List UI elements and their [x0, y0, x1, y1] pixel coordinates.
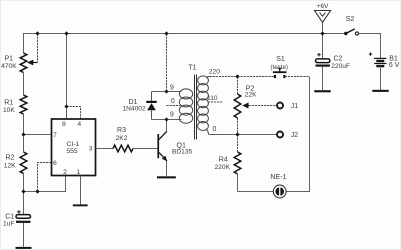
wire pin4 branch: [67, 107, 81, 120]
wire R1 to R2: [23, 114, 25, 152]
wire pin2 to C1: [24, 176, 66, 192]
node R1-R2-pin7: [21, 132, 25, 136]
svg-text:(teste): (teste): [270, 64, 288, 71]
svg-text:S2: S2: [346, 16, 355, 23]
potentiometer P2: [234, 77, 257, 135]
svg-text:C1: C1: [5, 213, 14, 220]
svg-text:110: 110: [207, 95, 218, 102]
svg-text:J2: J2: [291, 132, 299, 139]
ground C2: [314, 90, 330, 92]
node rail-T1: [164, 31, 168, 35]
node C1-pin2: [21, 189, 25, 193]
svg-text:1: 1: [77, 169, 81, 176]
resistor R1: [3, 95, 27, 114]
resistor R2: [4, 152, 27, 174]
svg-text:CI-1: CI-1: [66, 141, 79, 148]
switch S1 teste: [270, 56, 288, 78]
wire pin3: [96, 148, 114, 150]
svg-text:R1: R1: [4, 99, 13, 106]
wire primary 9 bottom: [152, 119, 182, 121]
node rail-C2: [320, 31, 324, 35]
wire emitter to ground: [166, 161, 168, 176]
svg-text:S1: S1: [276, 56, 285, 63]
wire secondary 110 stub: [208, 101, 222, 103]
wire pin6: [38, 163, 52, 192]
wire 0 tap to J2: [209, 134, 277, 136]
power +6V: [315, 3, 331, 33]
resistor R4: [215, 135, 241, 192]
capacitor C1: [3, 210, 31, 227]
wire P2 wiper to J1: [249, 105, 278, 107]
wire pin1 to ground: [80, 176, 82, 205]
svg-text:555: 555: [66, 148, 78, 155]
svg-text:T1: T1: [188, 64, 196, 71]
lamp NE-1: [270, 174, 286, 198]
svg-text:4: 4: [77, 121, 81, 128]
transistor Q1 BD135: [157, 131, 192, 161]
wire R3 to base: [133, 148, 157, 150]
potentiometer P1: [1, 53, 37, 73]
node rail-P1: [35, 31, 39, 35]
switch S2: [344, 16, 359, 35]
node 9bot-Q1: [164, 117, 168, 121]
wire right branch down: [286, 77, 309, 192]
svg-text:6: 6: [53, 160, 57, 167]
wire P1 wiper riser: [37, 34, 39, 63]
wire S1 to right branch: [285, 76, 310, 78]
ground B1: [372, 90, 388, 92]
node pin6-C1: [35, 189, 39, 193]
resistor R3: [113, 127, 133, 152]
wire S2 to B1: [359, 34, 381, 59]
wire C1 to ground: [23, 223, 25, 247]
svg-text:2: 2: [63, 169, 67, 176]
svg-text:7: 7: [53, 132, 57, 139]
svg-text:BD135: BD135: [172, 149, 192, 156]
svg-text:12K: 12K: [4, 162, 16, 169]
wire pin8: [66, 107, 68, 120]
wire pin7: [24, 134, 52, 136]
svg-text:6 V: 6 V: [389, 62, 400, 69]
svg-text:22K: 22K: [245, 92, 257, 99]
wire transformer 9 riser: [166, 34, 168, 92]
svg-text:9: 9: [170, 111, 174, 118]
node rail-555: [64, 31, 68, 35]
svg-text:C2: C2: [334, 56, 343, 63]
svg-text:220K: 220K: [215, 164, 231, 171]
svg-text:8: 8: [62, 121, 66, 128]
ground pin1: [73, 204, 88, 206]
svg-text:P1: P1: [5, 56, 14, 63]
svg-text:R3: R3: [117, 127, 126, 134]
jack J1: [277, 103, 298, 111]
ground C1: [16, 247, 32, 249]
svg-text:470K: 470K: [1, 63, 17, 70]
svg-text:3: 3: [89, 146, 93, 153]
transformer T1: [179, 64, 209, 139]
svg-text:0: 0: [213, 126, 217, 133]
wire collector riser: [166, 120, 168, 132]
svg-text:2K2: 2K2: [116, 135, 128, 142]
svg-text:R4: R4: [219, 156, 228, 163]
wire 220 tap to S1: [210, 76, 275, 78]
battery B1: [369, 52, 400, 89]
jack J2: [277, 132, 298, 140]
wire 555 supply riser: [66, 34, 68, 107]
wire R2 to C1 junction: [23, 174, 25, 215]
wire P1 to R1: [23, 73, 25, 96]
svg-text:220uF: 220uF: [331, 63, 350, 70]
wire primary 9 top: [152, 91, 182, 93]
svg-text:R2: R2: [6, 155, 15, 162]
svg-text:NE-1: NE-1: [270, 174, 286, 181]
svg-text:J1: J1: [291, 103, 299, 110]
ground Q1: [157, 176, 176, 178]
node 9top-D1: [164, 89, 168, 93]
node pin8-4: [64, 104, 68, 108]
svg-text:0: 0: [171, 98, 175, 105]
capacitor C2: [316, 34, 351, 91]
node 0-P2-R4: [235, 132, 239, 136]
svg-text:9: 9: [170, 85, 174, 92]
node 220-P2: [235, 74, 239, 78]
svg-text:1uF: 1uF: [3, 221, 14, 228]
wire R4 to NE-1: [238, 191, 274, 193]
svg-text:220: 220: [209, 69, 220, 76]
op-amp CI-1 555: [52, 119, 96, 176]
svg-text:+6V: +6V: [317, 3, 330, 10]
wire top supply rail: [24, 34, 346, 54]
svg-text:1N4002: 1N4002: [123, 106, 146, 113]
wire primary 0 stub: [167, 105, 181, 107]
svg-text:10K: 10K: [3, 107, 15, 114]
diode D1: [123, 92, 157, 120]
